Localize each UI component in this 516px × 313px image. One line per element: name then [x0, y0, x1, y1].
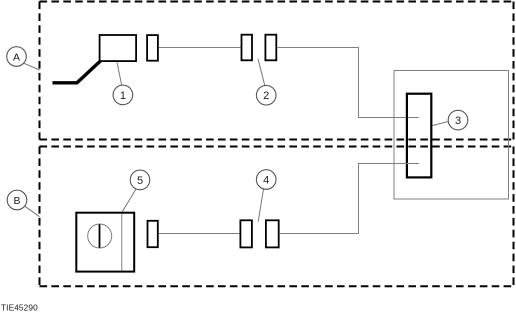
leader line 3 — [433, 122, 449, 126]
svg-text:B: B — [13, 195, 20, 207]
leader line A — [24, 63, 40, 70]
svg-text:TIE45290: TIE45290 — [1, 302, 38, 312]
connector 2 right half — [265, 35, 276, 61]
connector 4 left half — [240, 220, 252, 247]
connector 2 left half — [242, 35, 253, 61]
wire from component 5 connector to connector 4 — [159, 233, 240, 235]
leader line 1 — [117, 62, 122, 85]
harness enclosure B (dashed boundary) — [40, 147, 514, 287]
callout 4 (circle label) — [256, 170, 276, 190]
svg-text:2: 2 — [263, 90, 269, 102]
connector 4 right half — [266, 220, 279, 247]
thick cable lead of component 1 — [53, 61, 101, 83]
connector pin on component 1 — [147, 35, 158, 61]
wire from connector 2 to module connector 3 (upper circuit) — [277, 48, 419, 118]
wire from connector 4 to module connector 3 (lower circuit) — [279, 164, 419, 234]
component 5 (sensor body) — [76, 213, 134, 272]
callout A (circle label) — [7, 47, 27, 67]
callout 2 (circle label) — [256, 85, 276, 105]
component 5 face circle — [88, 224, 112, 248]
leader line 2 — [258, 59, 265, 86]
svg-text:5: 5 — [137, 175, 143, 187]
callout 1 (circle label) — [113, 85, 133, 105]
control module outline (box around 3) — [394, 71, 509, 200]
component 3 (module connector) — [407, 94, 431, 178]
harness enclosure A (dashed boundary) — [40, 2, 514, 140]
component 5 inner connector divider — [121, 214, 123, 271]
leader line 4 — [258, 189, 263, 222]
component 5 slot line — [99, 224, 101, 247]
svg-text:1: 1 — [120, 90, 126, 102]
svg-text:3: 3 — [455, 115, 461, 127]
svg-text:4: 4 — [263, 175, 269, 187]
callout B (circle label) — [7, 190, 27, 210]
connector pin on component 5 — [148, 221, 158, 247]
leader line 5 — [122, 189, 136, 212]
wire from component 1 connector to connector 2 — [159, 47, 241, 49]
leader line B — [25, 206, 40, 216]
svg-text:A: A — [13, 51, 20, 63]
component 1 (sensor body) — [100, 35, 137, 61]
callout 3 (circle label) — [448, 110, 468, 130]
callout 5 (circle label) — [130, 170, 150, 190]
